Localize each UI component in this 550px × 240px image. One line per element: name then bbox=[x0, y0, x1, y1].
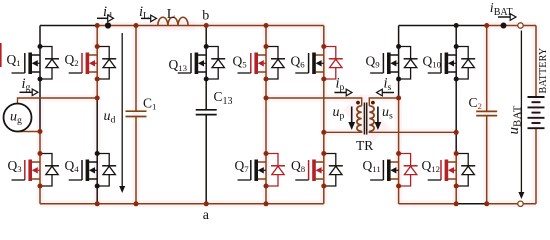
wire leg D middle bbox=[323, 79, 325, 132]
wire C2 top bbox=[486, 26, 488, 112]
wire C13 to bottom rail bbox=[205, 115, 207, 204]
transistor Q12 bbox=[455, 154, 457, 187]
current id arrow bbox=[97, 17, 108, 19]
svg-text:TR: TR bbox=[356, 138, 373, 153]
voltage up arrow bbox=[351, 107, 353, 124]
wire C1 bottom bbox=[135, 117, 137, 204]
node dot ug to leg A bbox=[38, 129, 43, 134]
voltage source ug circle bbox=[4, 104, 32, 132]
voltage us arrow bbox=[377, 107, 379, 124]
transformer TR secondary polarity dot bbox=[371, 101, 375, 105]
transistor Q11 bbox=[398, 154, 400, 187]
terminal circle top bbox=[518, 23, 523, 28]
wire leg C lower bbox=[265, 98, 267, 154]
svg-text:ud: ud bbox=[104, 109, 116, 125]
wire leg A upper (Q1 drain) bbox=[39, 26, 41, 47]
current iBAT arrow bbox=[498, 16, 510, 18]
node dot leg C midpoint bbox=[264, 96, 269, 101]
wire top rail left (black) bbox=[40, 25, 97, 27]
wire leg D bottom bbox=[323, 186, 325, 204]
transformer TR primary winding bbox=[357, 106, 362, 132]
svg-text:Q8: Q8 bbox=[291, 158, 306, 174]
svg-text:BATTERY: BATTERY bbox=[538, 48, 549, 94]
transistor Q13 bbox=[205, 47, 207, 80]
node a dot bbox=[204, 201, 209, 206]
svg-text:L: L bbox=[167, 7, 176, 22]
wire C2 bottom bbox=[486, 116, 488, 204]
node dot id measurement bbox=[105, 22, 111, 28]
left edge crop artifact bbox=[0, 43, 2, 67]
svg-text:Q4: Q4 bbox=[65, 158, 80, 174]
svg-text:Q10: Q10 bbox=[423, 54, 442, 70]
wire leg C bottom bbox=[265, 186, 267, 204]
wire primary bottom (TR to leg D) bbox=[324, 131, 362, 132]
wire Q13 to C13 bbox=[205, 79, 207, 110]
transistor Q3 bbox=[39, 154, 41, 187]
node dot top rail leg B bbox=[95, 23, 100, 28]
battery cells bbox=[528, 96, 545, 98]
svg-text:Q13: Q13 bbox=[169, 57, 188, 73]
wire leg D upper bbox=[323, 26, 325, 47]
transformer TR primary polarity dot bbox=[356, 101, 360, 105]
svg-text:is: is bbox=[384, 76, 392, 93]
wire ug top to bridge (ig wire) bbox=[18, 98, 98, 104]
svg-text:Q2: Q2 bbox=[65, 52, 79, 68]
node dot bottom rail C2 bbox=[484, 201, 489, 206]
transistor Q2 bbox=[96, 47, 98, 80]
node b dot bbox=[204, 23, 209, 28]
wire bottom rail right red2 bbox=[487, 203, 536, 205]
wire primary top (leg C to TR) bbox=[266, 98, 362, 106]
wire top rail right black bbox=[399, 25, 487, 27]
wire leg F middle bbox=[455, 79, 457, 132]
wire battery bottom bbox=[535, 128, 537, 204]
node dot bottom rail leg C bbox=[264, 201, 269, 206]
wire top rail right red bbox=[487, 25, 536, 27]
svg-text:Q9: Q9 bbox=[366, 54, 381, 70]
voltage uBAT arrow bbox=[520, 31, 522, 194]
svg-text:b: b bbox=[202, 9, 209, 24]
wire leg A bottom (Q3 source to rail) bbox=[39, 186, 41, 204]
background ghosting bbox=[97, 22, 324, 29]
current ip arrow bbox=[334, 92, 346, 94]
transistor Q8 bbox=[323, 154, 325, 187]
node dot top rail C1 bbox=[134, 23, 139, 28]
transformer TR core bbox=[363, 103, 365, 135]
wire leg D lower bbox=[323, 132, 325, 153]
wire leg F lower bbox=[455, 132, 457, 153]
wire leg B upper bbox=[96, 26, 98, 47]
svg-text:us: us bbox=[382, 105, 393, 121]
wire node b to Q13 bbox=[205, 26, 207, 47]
wire secondary top (TR to leg E) bbox=[369, 98, 398, 106]
node dot bottom rail C1 bbox=[134, 201, 139, 206]
wire leg C middle bbox=[265, 79, 267, 98]
wire C1 top bbox=[135, 26, 137, 112]
svg-text:Q1: Q1 bbox=[7, 52, 21, 68]
wire leg B bottom bbox=[96, 186, 98, 204]
current is arrow bbox=[382, 92, 394, 94]
capacitor C13 plates bbox=[196, 109, 217, 111]
transistor Q10 bbox=[455, 47, 457, 80]
wire bottom rail right red1 bbox=[399, 203, 457, 205]
svg-text:Q12: Q12 bbox=[422, 158, 441, 174]
wire leg E bottom bbox=[398, 186, 400, 204]
transistor Q7 bbox=[265, 154, 267, 187]
node dot bottom rail leg F bbox=[454, 201, 459, 206]
terminal circle bottom bbox=[518, 201, 523, 206]
node dot top rail C2 bbox=[484, 23, 489, 28]
wire leg E upper bbox=[398, 26, 400, 47]
transistor Q9 bbox=[398, 47, 400, 80]
svg-text:Q5: Q5 bbox=[233, 54, 248, 70]
current iL arrow bbox=[141, 17, 151, 19]
transistor Q5 bbox=[265, 47, 267, 80]
svg-text:ip: ip bbox=[336, 76, 345, 93]
transistor Q1 bbox=[39, 47, 41, 80]
node dot leg E midpoint bbox=[396, 96, 401, 101]
svg-text:iBAT: iBAT bbox=[490, 1, 513, 18]
svg-text:up: up bbox=[333, 105, 345, 121]
wire top rail mid (red) bbox=[97, 25, 324, 27]
wire battery top bbox=[535, 26, 537, 98]
wire leg F upper bbox=[455, 26, 457, 47]
wire bottom rail left (red) bbox=[40, 203, 324, 205]
svg-text:C13: C13 bbox=[214, 89, 233, 107]
wire leg B lower (node to Q4) bbox=[96, 98, 98, 154]
wire leg F bottom bbox=[455, 186, 457, 204]
voltage ud arrow bbox=[121, 33, 123, 188]
svg-text:ig: ig bbox=[22, 76, 31, 93]
svg-text:a: a bbox=[203, 208, 210, 223]
wire leg E middle bbox=[398, 79, 400, 98]
svg-text:Q6: Q6 bbox=[291, 54, 306, 70]
wire leg C upper bbox=[265, 26, 267, 47]
node dot ug to leg B bbox=[95, 96, 100, 101]
wire leg A middle (Q1 source to ug node) bbox=[39, 79, 41, 132]
wire ug bottom to leg A bbox=[18, 130, 41, 131]
wire leg A lower (to Q3) bbox=[39, 132, 41, 154]
wire leg E lower bbox=[398, 98, 400, 154]
node dot top rail leg C bbox=[264, 23, 269, 28]
svg-text:Q11: Q11 bbox=[363, 158, 381, 174]
node dot leg F midpoint bbox=[454, 130, 459, 135]
wire bottom rail right black bbox=[456, 203, 487, 205]
wire secondary bottom (TR to leg F) bbox=[369, 131, 456, 132]
wire leg B middle (Q2 source to node) bbox=[96, 79, 98, 98]
node dot bottom rail leg B bbox=[95, 201, 100, 206]
node dot leg D midpoint bbox=[321, 130, 326, 135]
current ig arrow bbox=[20, 91, 33, 93]
capacitor C1 plates bbox=[126, 110, 147, 112]
node dot iBAT measurement bbox=[501, 23, 507, 29]
transistor Q4 bbox=[96, 154, 98, 187]
inductor L bbox=[158, 17, 188, 25]
svg-text:C1: C1 bbox=[143, 96, 156, 112]
node dot top rail leg F bbox=[454, 23, 459, 28]
transistor Q6 bbox=[323, 47, 325, 80]
svg-text:Q3: Q3 bbox=[8, 158, 23, 174]
svg-text:Q7: Q7 bbox=[235, 158, 250, 174]
transformer TR secondary winding bbox=[369, 106, 374, 132]
capacitor C2 plates bbox=[476, 110, 497, 112]
svg-text:C2: C2 bbox=[469, 95, 482, 111]
